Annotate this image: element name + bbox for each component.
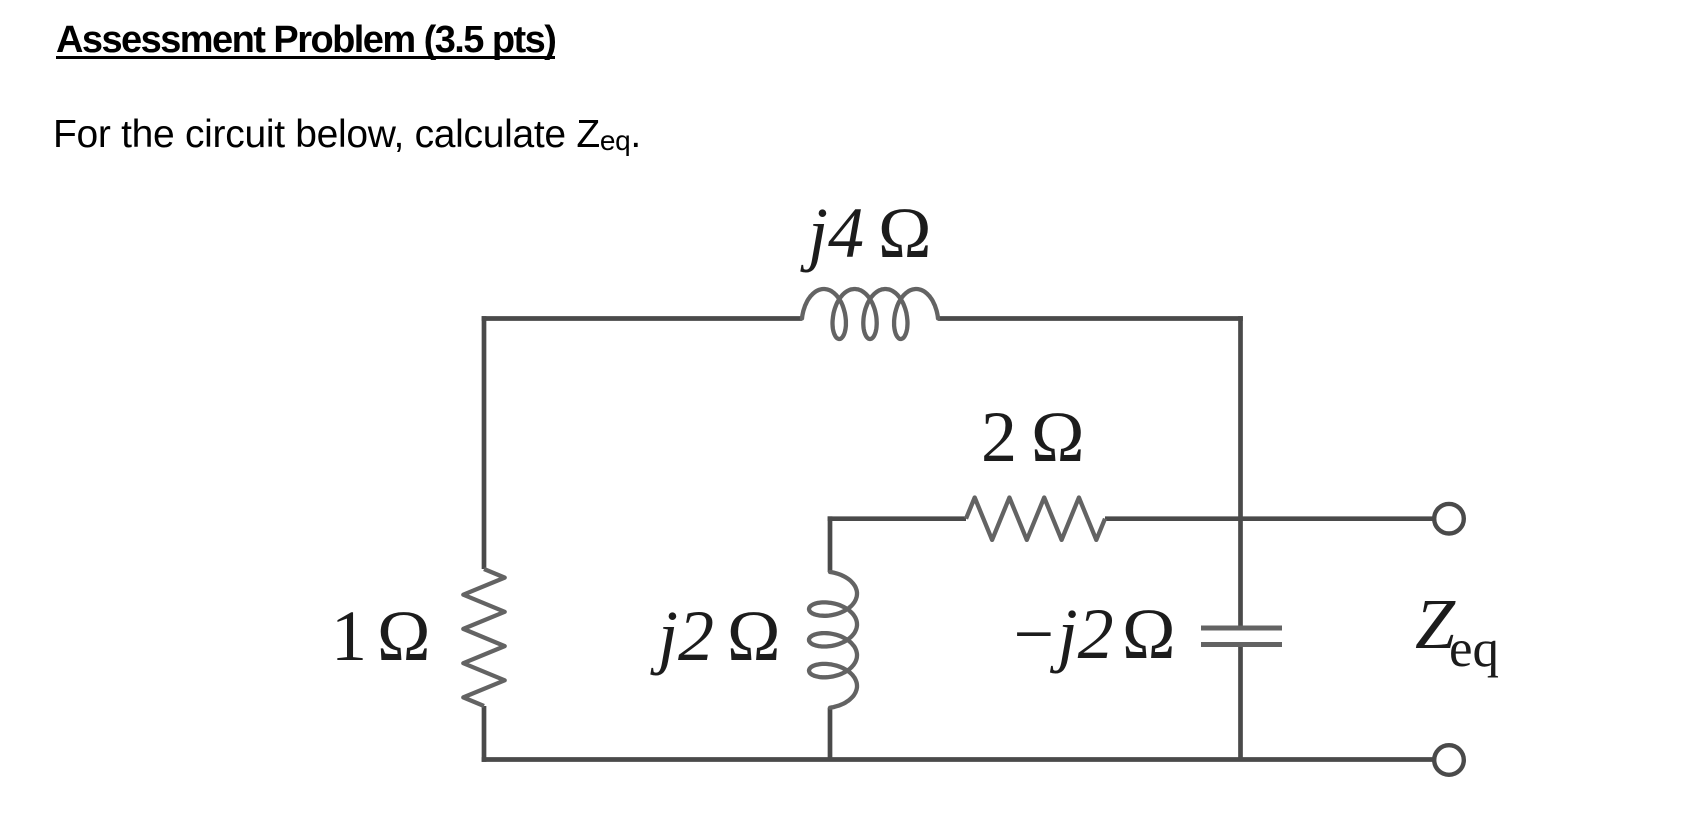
title underline [56,56,555,59]
wire: bottom rail [482,757,1434,762]
terminal node b (bottom-right circle) [1434,745,1464,775]
wire: j2 branch lower segment [828,708,833,760]
svg-text:−j2Ω: −j2Ω [1009,594,1176,674]
svg-text:Zeq: Zeq [1415,584,1499,678]
title text [56,19,555,62]
capacitor C1 bottom plate [1201,642,1282,647]
svg-text:j4Ω: j4Ω [800,193,932,273]
terminal node a (top-right circle) [1434,504,1464,534]
inductor L2 j2ohm (vertical coil) [809,572,857,708]
svg-text:1Ω: 1Ω [331,596,431,676]
wire: j2 branch upper segment [828,516,833,572]
wire: top rail left segment [482,316,802,321]
resistor R2 2ohm (horizontal zigzag) [966,498,1105,540]
inductor L1 j4ohm (top horizontal coil) [802,289,938,339]
wire: left rail upper segment [482,316,487,569]
svg-text:2Ω: 2Ω [981,397,1085,477]
wire: right rail upper segment [1238,316,1243,625]
wire: middle rail right segment (R2 to terminal a) [1105,516,1434,521]
resistor R1 1ohm (left vertical zigzag) [463,569,504,706]
wire: top rail right segment [938,316,1243,321]
wire: right rail lower segment [1238,647,1243,760]
wire: left rail lower segment [482,706,487,762]
problem statement text [53,113,641,157]
svg-text:j2Ω: j2Ω [650,596,781,676]
wire: middle rail left segment (node to R2) [828,516,966,521]
capacitor C1 top plate [1201,626,1282,631]
